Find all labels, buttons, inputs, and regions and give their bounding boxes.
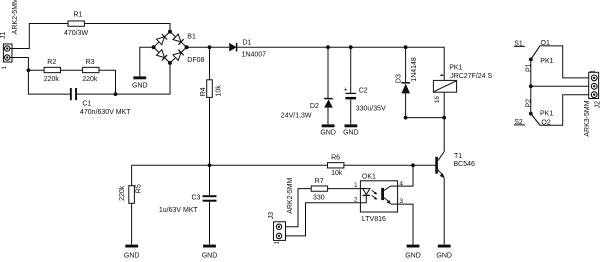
svg-text:1: 1: [1, 65, 8, 69]
svg-text:C1: C1: [82, 100, 91, 107]
svg-text:1: 1: [354, 182, 358, 189]
svg-text:C2: C2: [359, 88, 368, 95]
svg-text:P1: P1: [526, 63, 533, 72]
svg-text:GND: GND: [202, 253, 218, 260]
svg-text:220k: 220k: [119, 185, 126, 201]
svg-text:1N4148: 1N4148: [411, 57, 418, 82]
svg-text:O2: O2: [541, 120, 550, 127]
svg-text:1: 1: [274, 241, 281, 245]
svg-text:J1: J1: [0, 32, 7, 40]
svg-text:J3: J3: [268, 212, 275, 220]
svg-text:GND: GND: [405, 253, 421, 260]
svg-text:1N4007: 1N4007: [242, 51, 267, 58]
svg-text:R6: R6: [331, 155, 340, 162]
svg-text:R4: R4: [200, 87, 207, 96]
svg-text:330u/35V: 330u/35V: [356, 106, 386, 113]
svg-text:T1: T1: [454, 153, 462, 160]
svg-text:R2: R2: [47, 59, 56, 66]
svg-text:C3: C3: [192, 194, 201, 201]
svg-text:R7: R7: [315, 178, 324, 185]
svg-text:GND: GND: [132, 83, 148, 90]
svg-text:470/3W: 470/3W: [64, 30, 89, 37]
svg-text:1u/63V MKT: 1u/63V MKT: [159, 207, 199, 214]
svg-text:B1: B1: [187, 34, 196, 41]
svg-text:R5: R5: [135, 184, 142, 193]
svg-text:PK1: PK1: [540, 111, 553, 118]
svg-text:D1: D1: [243, 40, 252, 47]
svg-text:D2: D2: [310, 103, 319, 110]
svg-text:S2: S2: [514, 119, 523, 126]
svg-text:OK1: OK1: [362, 174, 376, 181]
svg-text:PK1: PK1: [449, 65, 462, 72]
svg-text:GND: GND: [124, 253, 140, 260]
svg-text:R3: R3: [86, 59, 95, 66]
svg-text:DF08: DF08: [187, 57, 204, 64]
svg-text:330: 330: [313, 194, 325, 201]
svg-text:+: +: [343, 87, 347, 94]
svg-text:24V/1,3W: 24V/1,3W: [281, 113, 312, 120]
svg-text:LTV816: LTV816: [362, 216, 386, 223]
svg-text:1: 1: [590, 69, 597, 73]
svg-text:J2: J2: [595, 101, 600, 109]
svg-text:GND: GND: [436, 253, 452, 260]
svg-text:R1: R1: [73, 11, 82, 18]
svg-text:GND: GND: [320, 130, 336, 137]
svg-text:BC546: BC546: [454, 161, 476, 168]
svg-text:470n/630V MKT: 470n/630V MKT: [80, 109, 131, 116]
svg-text:2: 2: [354, 197, 358, 204]
svg-text:16: 16: [434, 96, 441, 103]
svg-text:ARK2-5MM: ARK2-5MM: [12, 0, 19, 34]
svg-text:ARK2-5MM: ARK2-5MM: [287, 177, 294, 213]
svg-text:10k: 10k: [215, 85, 222, 97]
svg-text:PK1: PK1: [540, 58, 553, 65]
svg-text:P2: P2: [526, 99, 533, 108]
svg-text:10k: 10k: [331, 170, 343, 177]
svg-text:D3: D3: [396, 74, 403, 83]
svg-text:O1: O1: [541, 40, 550, 47]
svg-text:JRC27F/24 S: JRC27F/24 S: [450, 73, 492, 80]
svg-text:GND: GND: [343, 130, 359, 137]
svg-text:220k: 220k: [82, 76, 98, 83]
svg-text:S1: S1: [514, 40, 523, 47]
svg-text:220k: 220k: [44, 76, 60, 83]
svg-text:ARK3-5MM: ARK3-5MM: [584, 100, 591, 136]
